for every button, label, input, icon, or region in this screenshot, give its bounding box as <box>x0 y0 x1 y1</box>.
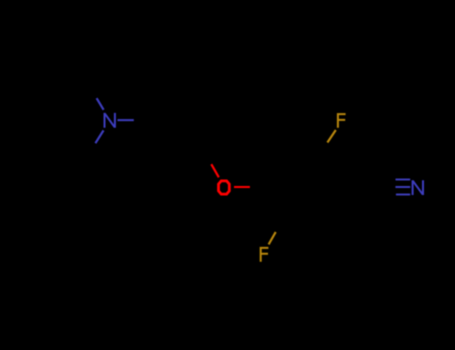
atom label F (top fluorine, dark yellow glyph F) <box>337 113 346 128</box>
atom label O (ether oxygen, red octagonal glyph O) <box>219 181 230 194</box>
carbon skeleton: propyl chain N-C1'-C2'-C3'-O <box>110 120 224 187</box>
bond stub N1 to chain C1' (blue half-bond, right) <box>118 119 134 121</box>
bond stub N1 to ring C2 (blue half-bond, upper-left) <box>97 98 104 110</box>
bond stub N1 to ring C6 (blue half-bond, lower-left) <box>95 130 103 143</box>
atom label F (bottom fluorine, dark yellow glyph F) <box>260 247 269 262</box>
bond stub O to benzene C4 (red half-bond, right) <box>234 186 250 188</box>
bond stub F(bottom) to benzene C5 (dark yellow half-bond) <box>269 232 276 244</box>
atom label N1 (piperidine nitrogen, blue glyph N) <box>105 113 115 128</box>
carbon skeleton (black bonds, invisible on black background): piperidine ring <box>34 87 110 153</box>
carbon skeleton: benzene ring with O, F, F, CN substituent bonds <box>223 120 417 254</box>
bond stub O to chain C3' (red half-bond, upper-left) <box>211 164 219 177</box>
atom label N (nitrile nitrogen, blue glyph N) <box>413 180 423 195</box>
nitrile triple bond C#N (blue half, three parallel lines) <box>395 180 410 195</box>
bond stub F(top) to benzene C2 (dark yellow half-bond) <box>327 130 335 143</box>
